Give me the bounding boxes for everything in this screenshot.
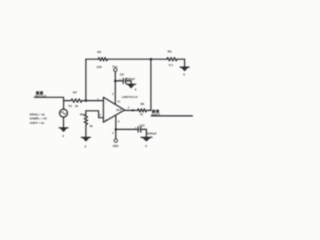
power node VEE [114,139,117,142]
svg-text:V-: V- [118,120,121,123]
ground 0 below V1 [59,127,68,129]
voltage source V1 [63,101,65,110]
svg-text:LM675CLK: LM675CLK [122,95,138,99]
capacitor C8 [115,80,123,82]
svg-text:V1: V1 [68,104,72,108]
svg-text:R3: R3 [168,49,172,53]
resistor R6 [138,109,151,112]
output pin dot [132,109,134,111]
svg-text:+: + [119,77,121,81]
svg-text:OUT: OUT [116,108,122,112]
capacitor C10 [116,128,138,130]
wire op-amp V- to VEE [115,115,117,139]
svg-text:VEE: VEE [113,144,119,148]
ground 0 below C8 [127,83,136,85]
node SETTLE label text [35,91,47,98]
wire node A to op-amp +in [86,100,103,102]
svg-text:V+: V+ [118,100,122,103]
wire top rail right [108,58,151,60]
wire EOUT underline [151,115,192,117]
svg-text:R2: R2 [97,50,101,54]
svg-text:-: - [105,100,106,104]
svg-text:75: 75 [140,113,144,117]
ground 0 top right [180,66,189,68]
power node Vcc [114,68,117,71]
svg-text:R5: R5 [80,112,84,116]
svg-text:VOFF = 0v: VOFF = 0v [30,121,45,125]
resistor R5 [84,111,87,137]
wire SETTLE underline to source [34,97,63,100]
svg-text:C10: C10 [139,123,145,127]
junction at C8 tap [114,80,117,83]
wire R3 to ground [184,59,186,67]
wire feedback drop to output [150,59,152,110]
wire rail to R3 [151,58,167,60]
resistor R2 [98,58,107,61]
svg-text:100: 100 [97,65,102,69]
node EOUT label text [152,110,161,117]
svg-text:+: + [135,125,137,129]
svg-text:0.1: 0.1 [169,63,174,67]
svg-text:Vcc: Vcc [112,64,118,68]
svg-text:R7: R7 [73,90,77,94]
resistor R3 [167,58,185,61]
svg-text:1k: 1k [75,104,79,108]
junction at C10 tap [115,128,118,131]
resistor R7 [64,99,86,102]
svg-text:1k: 1k [89,124,93,128]
wire op-amp -in jog (R5 to pin2) [86,111,104,118]
ground 0 below C10 [141,136,152,138]
node A junction dot [85,99,88,102]
svg-text:2200uF: 2200uF [147,132,157,136]
svg-text:2500uF: 2500uF [125,77,135,81]
svg-text:R6: R6 [141,102,145,106]
wire op-amp output [125,109,138,111]
op-amp U1 LM675CLK [103,97,124,122]
wire top rail left [86,58,98,60]
wire feedback vertical [85,59,87,100]
wire Vcc to op-amp V+ [114,72,116,105]
ground 0 below R5 [81,136,90,138]
junction at feedback tap [150,58,153,61]
